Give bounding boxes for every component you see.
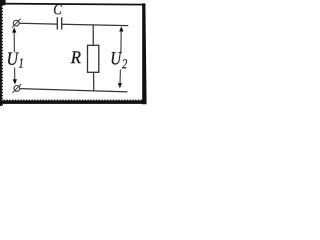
border frame left sawtooth edge (0, 0, 3, 106)
wire resistor branch bottom (R to bottom wire) (93, 72, 95, 91)
capacitor label C (54, 4, 62, 14)
resistor label R (71, 51, 81, 63)
voltage arrow U2 (up head) (119, 26, 123, 52)
wire top right (capacitor to right end) (62, 24, 129, 25)
wire top left (terminal to capacitor) (19, 22, 57, 25)
resistor R body (88, 45, 99, 72)
label U1 (8, 53, 23, 68)
voltage arrow U1 (down head) (13, 68, 17, 85)
border frame bottom sawtooth strip (0, 99, 146, 104)
voltage arrow U1 (up head) (12, 27, 16, 52)
voltage arrow U2 (down head) (118, 70, 122, 89)
label U2 (112, 52, 127, 68)
terminal (input bottom) (13, 84, 22, 93)
terminal (input top) (12, 19, 21, 28)
wire resistor branch top (junction to R) (92, 25, 94, 46)
capacitor C plates (57, 17, 61, 29)
border frame top line (0, 0, 145, 5)
wire bottom (terminal to right end) (20, 89, 128, 92)
border frame right bar (142, 3, 146, 104)
